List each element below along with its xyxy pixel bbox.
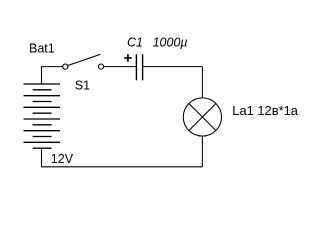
svg-text:1000µ: 1000µ bbox=[153, 35, 188, 49]
battery plate long 1 bbox=[24, 83, 61, 85]
lamp circle bbox=[183, 98, 221, 136]
battery plate long 5 bbox=[24, 130, 61, 132]
battery plate long 4 bbox=[24, 118, 61, 120]
switch lever bbox=[68, 54, 101, 65]
lamp cross line 1 bbox=[189, 104, 216, 131]
svg-text:S1: S1 bbox=[75, 78, 90, 92]
wire bottom horizontal bbox=[42, 166, 203, 168]
wire top left horizontal to switch bbox=[41, 66, 63, 68]
battery plate short 4 bbox=[33, 124, 52, 126]
battery plate short 6 bbox=[33, 147, 52, 149]
capacitor polarity plus sign bbox=[124, 54, 131, 62]
switch contact circle left bbox=[63, 64, 68, 69]
battery plate long 3 bbox=[24, 106, 61, 108]
svg-text:C1: C1 bbox=[127, 35, 143, 49]
battery plate short 2 bbox=[33, 101, 52, 103]
wire switch to capacitor bbox=[104, 66, 137, 68]
wire capacitor to lamp horizontal bbox=[143, 66, 203, 68]
capacitor C1 bbox=[136, 54, 142, 80]
wire battery positive terminal vertical bbox=[41, 67, 43, 84]
battery plate short 3 bbox=[33, 112, 52, 114]
lamp La1 bbox=[183, 98, 221, 136]
switch contact circle right bbox=[98, 64, 103, 69]
svg-text:La1 12в*1а: La1 12в*1а bbox=[232, 103, 298, 118]
battery plate long 6 bbox=[24, 141, 61, 143]
capacitor plate left bbox=[135, 54, 137, 80]
switch S1 bbox=[63, 54, 104, 69]
battery plate short 1 bbox=[33, 89, 52, 91]
svg-text:12V: 12V bbox=[51, 152, 74, 166]
wire battery negative terminal vertical bbox=[41, 148, 43, 167]
battery Bat1 bbox=[24, 84, 61, 148]
capacitor plate right bbox=[142, 54, 144, 80]
lamp cross line 2 bbox=[189, 104, 216, 131]
battery plate long 2 bbox=[24, 95, 61, 97]
wire lamp bottom vertical bbox=[201, 136, 203, 167]
battery plate short 5 bbox=[33, 136, 52, 138]
svg-text:Bat1: Bat1 bbox=[29, 42, 55, 56]
wire lamp top vertical bbox=[201, 67, 203, 98]
